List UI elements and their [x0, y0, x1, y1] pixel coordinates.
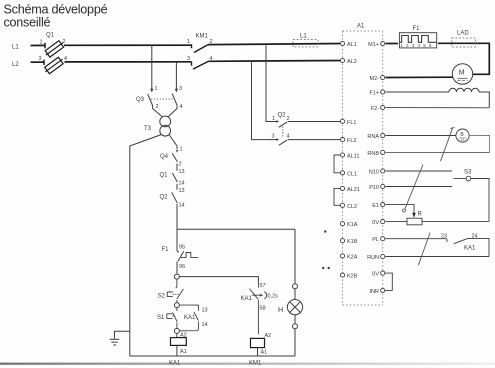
- svg-text:4: 4: [210, 56, 213, 62]
- svg-text:L1: L1: [12, 45, 19, 51]
- svg-text:95: 95: [179, 245, 185, 251]
- svg-text:KA1: KA1: [184, 315, 196, 321]
- svg-text:PL: PL: [372, 237, 379, 243]
- svg-text:AL21: AL21: [347, 187, 360, 193]
- svg-text:Q2: Q2: [278, 113, 287, 119]
- svg-text:13: 13: [202, 308, 208, 314]
- svg-text:T3: T3: [144, 126, 152, 132]
- svg-text:AL2: AL2: [347, 59, 357, 65]
- svg-text:2: 2: [287, 116, 290, 122]
- svg-text:58: 58: [260, 306, 266, 312]
- svg-text:F1+: F1+: [369, 91, 379, 97]
- svg-text:LAD: LAD: [457, 31, 469, 37]
- svg-text:A1: A1: [180, 349, 187, 355]
- svg-text:AL11: AL11: [347, 154, 359, 160]
- svg-text:CL2: CL2: [347, 204, 357, 210]
- svg-text:0V: 0V: [372, 220, 379, 226]
- svg-text:Q2: Q2: [160, 195, 169, 201]
- svg-text:S3: S3: [464, 170, 472, 176]
- svg-text:Schéma développé: Schéma développé: [4, 3, 108, 17]
- svg-text:RNB: RNB: [367, 151, 379, 157]
- svg-text:K1A: K1A: [347, 222, 358, 228]
- svg-text:CL1: CL1: [347, 171, 357, 177]
- svg-text:R: R: [418, 212, 423, 218]
- svg-text:FL2: FL2: [347, 138, 356, 144]
- svg-text:M1+: M1+: [368, 42, 379, 48]
- svg-text:S1: S1: [157, 315, 165, 321]
- svg-text:KA1: KA1: [169, 361, 181, 367]
- svg-text:13: 13: [179, 188, 185, 194]
- svg-text:3: 3: [272, 133, 275, 139]
- svg-text:4: 4: [64, 56, 67, 62]
- svg-text:1: 1: [40, 40, 43, 46]
- svg-text:AL1: AL1: [347, 42, 357, 48]
- svg-text:3: 3: [39, 56, 42, 62]
- svg-text:E1: E1: [372, 203, 379, 209]
- svg-text:KA1: KA1: [241, 296, 253, 302]
- svg-text:1: 1: [180, 147, 183, 153]
- svg-text:1: 1: [272, 116, 275, 122]
- svg-text:57: 57: [260, 283, 266, 289]
- svg-text:23: 23: [441, 234, 447, 240]
- svg-text:2: 2: [156, 104, 159, 110]
- svg-text:3: 3: [179, 86, 182, 92]
- svg-text:L1: L1: [300, 33, 307, 39]
- svg-text:L2: L2: [12, 62, 19, 68]
- svg-text:INR: INR: [370, 289, 380, 295]
- svg-text:4: 4: [287, 133, 290, 139]
- svg-text:1 2 3 4 5 6: 1 2 3 4 5 6: [401, 43, 433, 48]
- svg-text:P10: P10: [369, 185, 379, 191]
- svg-text:M: M: [459, 70, 465, 77]
- svg-text:RNA: RNA: [367, 134, 379, 140]
- svg-text:14: 14: [179, 181, 185, 187]
- svg-text:S2: S2: [158, 294, 166, 300]
- svg-text:14: 14: [179, 203, 185, 209]
- svg-text:F1: F1: [413, 26, 421, 32]
- svg-text:A1: A1: [261, 350, 268, 356]
- svg-text:KM1: KM1: [249, 361, 262, 367]
- svg-text:RUN: RUN: [367, 255, 379, 261]
- svg-text:M2-: M2-: [370, 76, 380, 82]
- svg-text:2: 2: [210, 39, 213, 45]
- svg-text:KM1: KM1: [196, 34, 209, 40]
- svg-text:0,2s: 0,2s: [268, 294, 279, 300]
- svg-text:1: 1: [187, 39, 190, 45]
- svg-text:1: 1: [155, 86, 158, 92]
- svg-text:2: 2: [63, 39, 66, 45]
- svg-text:4: 4: [180, 104, 183, 110]
- svg-text:F1: F1: [162, 247, 170, 253]
- svg-text:Q1: Q1: [160, 173, 169, 179]
- svg-text:Q1: Q1: [46, 33, 55, 39]
- svg-text:0V: 0V: [372, 272, 379, 278]
- svg-text:KA1: KA1: [464, 246, 476, 252]
- svg-text:2: 2: [179, 162, 182, 168]
- svg-text:24: 24: [472, 234, 478, 240]
- svg-text:N10: N10: [369, 170, 379, 176]
- svg-text:3: 3: [187, 56, 190, 62]
- svg-text:Q4: Q4: [160, 154, 169, 160]
- svg-text:K2A: K2A: [347, 254, 358, 260]
- svg-text:14: 14: [202, 322, 208, 328]
- svg-text:F2-: F2-: [371, 106, 379, 112]
- svg-text:A1: A1: [357, 24, 365, 30]
- svg-text:96: 96: [179, 264, 185, 270]
- svg-text:A2: A2: [265, 333, 272, 339]
- svg-text:Q3: Q3: [136, 97, 145, 103]
- svg-text:13: 13: [179, 169, 185, 175]
- svg-text:H: H: [278, 305, 283, 314]
- svg-text:conseillé: conseillé: [4, 16, 51, 30]
- svg-text:FL1: FL1: [347, 120, 356, 126]
- svg-text:K1B: K1B: [347, 239, 358, 245]
- svg-text:K2B: K2B: [347, 274, 358, 280]
